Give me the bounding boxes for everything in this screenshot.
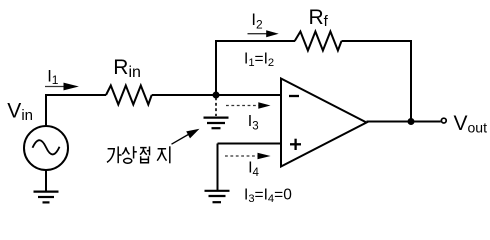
ground (non-inverting input)	[205, 191, 230, 202]
wire: non-inverting input horizontal	[218, 143, 282, 145]
virtual ground dashed wire below node A	[215, 98, 217, 117]
wire: Vin top stem	[45, 95, 47, 128]
op-amp plus input symbol	[290, 143, 301, 145]
ground (below Vin source)	[34, 192, 59, 203]
wire: op-amp output	[367, 121, 441, 123]
ground (virtual ground symbol)	[204, 118, 229, 129]
current arrow I2	[248, 33, 268, 35]
node B (output junction dot)	[408, 118, 415, 125]
wire: Vin bottom stem	[45, 169, 47, 192]
label 가상접지 (virtual ground, hand-drawn hangul strokes)	[107, 146, 170, 163]
current arrow I3 (dashed, into inverting input)	[226, 105, 259, 107]
wire: input wire Vin to Rin	[45, 94, 106, 96]
voltage source V1 (Vin, AC sine source)	[24, 126, 68, 170]
current arrow I4 (dashed, into non-inverting input)	[225, 155, 258, 157]
wire: Rin to op-amp inverting input (through node A)	[152, 94, 281, 96]
op-amp U1	[281, 79, 367, 167]
resistor Rf (feedback)	[295, 32, 342, 51]
node A (summing junction dot)	[213, 92, 220, 99]
wire: node A up to feedback branch	[215, 40, 217, 95]
pointer arrow to virtual ground	[172, 134, 191, 145]
wire: top feedback wire left of Rf	[215, 40, 295, 42]
op-amp minus input symbol	[289, 95, 299, 97]
wire: non-inverting input down to ground	[217, 144, 219, 191]
output terminal (open circle)	[441, 118, 446, 123]
wire: top feedback wire right of Rf	[342, 40, 413, 42]
resistor Rin	[106, 86, 152, 105]
current arrow I1	[45, 86, 66, 88]
wire: right vertical feedback drop to output	[410, 40, 412, 122]
